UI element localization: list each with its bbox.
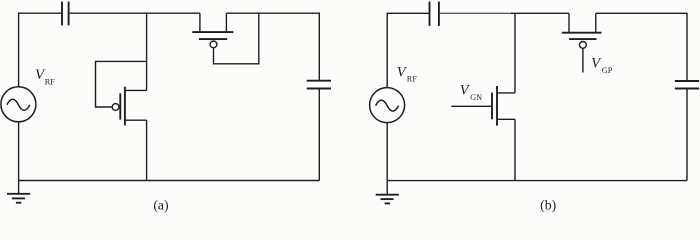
wire: C1 right plate to M2 left lead (a) top rail (70, 12, 200, 14)
wire: M3 gate lead stub (b) (451, 105, 492, 107)
svg-text:(b): (b) (540, 198, 556, 213)
svg-text:RF: RF (407, 74, 418, 83)
transistor M4 PMOS (b) top (562, 13, 602, 48)
wire: top rail right segment to output cap (b) (596, 13, 687, 81)
wire: bottom rail (b) (387, 180, 687, 182)
ground (b) (376, 195, 399, 204)
label VRF (a) (35, 67, 55, 87)
wire: source top to coupling cap left plate (b) (387, 13, 429, 88)
transistor M1 diode-connected PMOS (a) (112, 87, 146, 126)
wire: branch from top rail down to M1 drain (a) (146, 13, 148, 90)
wire: top rail to M4 left lead (b) (511, 12, 569, 14)
wire: branch from top rail down to M3 drain (b) (514, 13, 516, 93)
wire: M1 gate to drain loop (a) (96, 61, 147, 107)
label VGP (b) (591, 56, 612, 76)
wire: source bottom to ground (b) (386, 123, 388, 195)
wire: C3 right plate toward middle node (b) thin segment (440, 12, 513, 14)
AC source VRF (a) (1, 87, 36, 122)
AC source VRF (b) (370, 88, 405, 123)
svg-text:(a): (a) (153, 198, 168, 213)
label VRF (b) (397, 64, 418, 83)
svg-text:GP: GP (602, 66, 613, 75)
label VGN (b) (460, 83, 482, 103)
wire: M2 gate tied to output node (a) (214, 13, 259, 64)
capacitor C1 coupling cap (a) (62, 2, 69, 26)
wire: source top to coupling cap left plate (a) (19, 13, 62, 87)
wire: M4 gate stub VGP (b) (582, 48, 584, 72)
wire: M1 source to bottom rail (a) (146, 120, 148, 180)
wire: C4 bottom plate to bottom rail (b) (686, 89, 688, 181)
transistor M2 diode-connected PMOS (a) top (192, 13, 233, 48)
wire: source bottom to ground (a) (18, 122, 20, 194)
wire: M3 source to bottom rail (b) (514, 119, 516, 180)
capacitor C3 coupling cap (b) (430, 2, 439, 26)
capacitor C2 load cap (a) (307, 81, 331, 89)
ground (a) (7, 194, 30, 203)
transistor M3 NMOS (b) (492, 86, 515, 126)
svg-text:GN: GN (470, 93, 482, 102)
svg-text:V: V (591, 56, 602, 72)
svg-text:RF: RF (45, 78, 56, 87)
wire: top rail right segment to output cap (a) (226, 13, 319, 80)
wire: bottom rail (a) (19, 180, 320, 182)
wire: C2 bottom plate to bottom rail (a) (318, 89, 320, 181)
capacitor C4 load cap (b) (675, 81, 699, 89)
